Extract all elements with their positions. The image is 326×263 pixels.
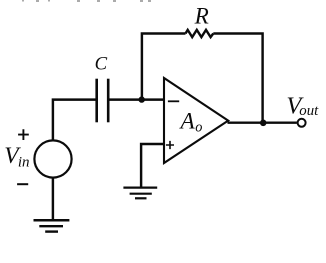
op-amp inverting input marker − — [168, 100, 179, 102]
svg-text:C: C — [95, 54, 108, 75]
wire: op-amp non-inverting input to ground — [141, 144, 164, 187]
resistor R — [186, 30, 214, 37]
source Vin — [34, 140, 71, 177]
node B (output junction dot) — [260, 120, 267, 127]
svg-text:o: o — [195, 119, 202, 135]
wire: op-amp output to Vout terminal — [228, 121, 297, 123]
wire: node A up to feedback top-left corner — [142, 34, 186, 101]
terminal Vout (open circle) — [298, 119, 306, 127]
wire: source bottom to ground — [52, 178, 54, 220]
ground (below source) — [34, 220, 70, 231]
svg-text:in: in — [18, 155, 30, 171]
label + (source polarity) — [18, 129, 29, 140]
capacitor C — [95, 79, 109, 123]
op-amp U1 — [164, 78, 228, 163]
node A (junction dot at inverting input) — [139, 96, 145, 102]
svg-text:A: A — [179, 108, 196, 134]
ground (below op-amp non-inverting input) — [123, 188, 157, 199]
wire: resistor to feedback top-right corner down to output node — [213, 34, 262, 123]
wire: capacitor to op-amp inverting input — [110, 98, 164, 100]
wire: source top corner to capacitor — [53, 100, 96, 141]
label − (source polarity) — [17, 183, 28, 185]
svg-text:out: out — [299, 103, 319, 119]
op-amp non-inverting input marker + — [166, 141, 174, 149]
svg-text:R: R — [194, 3, 209, 29]
